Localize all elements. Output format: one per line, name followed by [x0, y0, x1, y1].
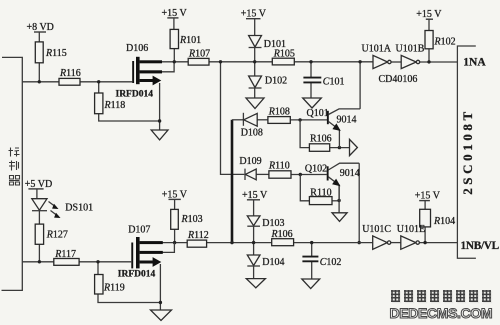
- svg-text:+15 V: +15 V: [416, 9, 442, 20]
- svg-text:D108: D108: [241, 128, 263, 139]
- resistor R107: [188, 58, 209, 65]
- svg-text:+15 V: +15 V: [241, 8, 267, 19]
- svg-text:1NA: 1NA: [463, 56, 486, 68]
- svg-text:+15 V: +15 V: [242, 190, 268, 201]
- power +15V rail bar (R101): [167, 17, 178, 19]
- wire Q102 base-emitter resistor branch: [300, 175, 309, 201]
- power +15V rail bar (R103): [169, 198, 181, 200]
- svg-text:U101E: U101E: [397, 224, 425, 235]
- svg-text:R119: R119: [103, 282, 125, 293]
- svg-text:R107: R107: [188, 48, 210, 59]
- transistor Q102: [327, 166, 329, 180]
- node Q101 emitter junction: [338, 146, 341, 149]
- wire R104 power lead: [424, 201, 426, 209]
- wire LED/R127 leads: [36, 189, 38, 198]
- node controller glyph 1 (kong): [9, 148, 20, 157]
- resistor R106 (Q101 base-emitter): [309, 144, 329, 152]
- node R102 junction: [427, 60, 430, 63]
- mosfet D107 drain stub: [140, 241, 163, 244]
- svg-text:R105: R105: [273, 49, 295, 60]
- wire D101 to signal to D102: [254, 47, 256, 76]
- ground below D107 source: [151, 310, 172, 321]
- node Q102 collector junction on lower signal: [358, 241, 361, 244]
- ground right of Q101 emitter: [350, 139, 358, 155]
- wire upper gate line (bus to R116 to D106 gate): [22, 81, 132, 83]
- svg-text:D102: D102: [265, 76, 287, 87]
- wire R108 to Q101 base: [290, 119, 327, 121]
- diode D102: [249, 76, 262, 88]
- wire C102 top lead: [311, 243, 313, 257]
- svg-text:D106: D106: [126, 43, 148, 54]
- wire R119 top lead: [97, 262, 99, 275]
- node R104 junction: [423, 241, 426, 244]
- resistor R103: [171, 209, 179, 229]
- node R127 junction: [38, 260, 41, 263]
- inverter U101B: [401, 55, 416, 68]
- mosfet D106 gate bar: [132, 61, 134, 83]
- svg-text:DS101: DS101: [65, 202, 93, 213]
- svg-text:IRFD014: IRFD014: [116, 89, 154, 99]
- svg-text:U101C: U101C: [362, 224, 391, 235]
- svg-text:R112: R112: [187, 230, 209, 241]
- LED DS101 emission arrows: [49, 202, 57, 208]
- ground below D102: [246, 98, 264, 109]
- svg-text:Q102: Q102: [305, 164, 327, 175]
- wire D106 middle stub L-connect: [161, 62, 174, 72]
- wire R103 power lead: [174, 200, 176, 210]
- diode D109: [244, 169, 246, 180]
- wire D109 branch from upper signal: [221, 62, 245, 175]
- ground below D104: [246, 279, 265, 288]
- svg-text:D107: D107: [128, 224, 150, 235]
- wire D102 to ground: [254, 88, 256, 98]
- svg-text:R106: R106: [310, 133, 332, 144]
- power +5VD rail bar (LED): [28, 188, 43, 190]
- resistor R108: [268, 117, 290, 124]
- ground below D106 source: [151, 130, 168, 140]
- wire D108 to R108: [257, 119, 268, 121]
- ground below C102: [302, 279, 320, 289]
- resistor R101: [170, 29, 178, 48]
- svg-text:D109: D109: [239, 156, 261, 167]
- node source rail junction: [158, 119, 161, 122]
- resistor R104: [420, 209, 431, 227]
- mosfet D106 channel bar: [136, 57, 140, 84]
- resistor R105: [272, 58, 294, 65]
- watermark line 1 (zhimeng CMS chinese): [392, 291, 492, 303]
- wire Q101 base-emitter resistor branch: [300, 120, 309, 148]
- node R118 junction: [97, 80, 100, 83]
- ground below Q102 emitter: [332, 213, 347, 222]
- svg-text:D103: D103: [262, 218, 284, 229]
- node D109 branch junction: [219, 60, 222, 63]
- wire lower gate line (bus to R117 to D107 gate): [22, 261, 131, 263]
- wire D103 to signal to D104: [253, 226, 255, 255]
- wire right bus of 2SC0108T: [457, 46, 476, 258]
- node lower drain junction: [173, 241, 176, 244]
- svg-text:R117: R117: [54, 249, 76, 260]
- node Q102 base junction: [299, 173, 302, 176]
- node controller glyph 2 (zhi): [9, 161, 19, 171]
- svg-text:R106: R106: [271, 229, 293, 240]
- wire upper signal line (drain to right bus): [161, 61, 373, 63]
- resistor R110 (D109 series): [269, 171, 291, 178]
- wire lower signal line: [161, 242, 373, 244]
- wire Q102 emitter to ground: [338, 185, 340, 213]
- svg-text:D104: D104: [262, 257, 284, 268]
- mosfet D106 drain stub: [140, 60, 162, 63]
- wire Q102 collector to lower signal: [358, 163, 360, 242]
- wire +15V lead to D101: [254, 19, 256, 36]
- wire R101 power lead: [173, 18, 175, 29]
- wire R103 bottom lead: [174, 229, 176, 242]
- wire D107 middle stub L-connect: [161, 243, 174, 253]
- svg-text:+15 V: +15 V: [415, 190, 441, 201]
- resistor R116: [59, 78, 80, 85]
- svg-text:U101B: U101B: [396, 43, 425, 54]
- node D103/D104 clamp junction: [252, 241, 255, 244]
- mosfet D107 source arrow: [140, 261, 154, 264]
- power +15V rail bar (D101): [246, 18, 261, 20]
- resistor R110 (Q102 base-emitter): [309, 197, 332, 205]
- svg-text:R127: R127: [46, 230, 68, 241]
- svg-text:R103: R103: [181, 214, 203, 225]
- wire R119 bottom to source rail: [98, 294, 160, 303]
- wire R118 bottom to source rail: [99, 114, 160, 121]
- svg-text:2SC0108T: 2SC0108T: [460, 108, 475, 195]
- resistor R127: [35, 224, 43, 244]
- wire left controller bus: [2, 57, 23, 290]
- wire D106 source down to rail and ground: [159, 83, 161, 130]
- mosfet D106 source arrow: [140, 79, 154, 82]
- svg-text:R116: R116: [59, 68, 81, 79]
- power +8VD rail bar: [34, 31, 46, 33]
- mosfet D107 channel bar: [136, 237, 140, 268]
- svg-text:9014: 9014: [337, 115, 357, 126]
- wire C102 bottom lead to ground: [311, 262, 313, 280]
- svg-text:CD40106: CD40106: [379, 74, 418, 85]
- wire Q101 collector to upper signal: [359, 62, 361, 109]
- resistor R119: [95, 275, 103, 295]
- node Q101 collector junction on signal: [358, 60, 361, 63]
- svg-text:1NB/VL: 1NB/VL: [461, 240, 500, 252]
- diode D108: [242, 113, 244, 126]
- svg-text:IRFD014: IRFD014: [118, 270, 156, 280]
- svg-text:+15 V: +15 V: [162, 189, 188, 200]
- wire D104 to ground: [253, 266, 255, 279]
- svg-text:R115: R115: [45, 48, 67, 59]
- wire D109 to R110: [256, 173, 269, 175]
- resistor R106 (lower series): [272, 239, 294, 246]
- wire C101 bottom lead to ground: [310, 83, 312, 98]
- svg-text:+8 VD: +8 VD: [27, 22, 54, 33]
- node R119 junction: [96, 260, 99, 263]
- resistor R118: [95, 93, 103, 114]
- transistor Q101: [327, 111, 329, 124]
- node R115/gate-line junction: [38, 80, 41, 83]
- node drain junction: [173, 60, 176, 63]
- diode D101: [249, 36, 262, 48]
- resistor R117: [54, 259, 79, 266]
- inverter U101E: [401, 236, 416, 249]
- svg-text:R108: R108: [268, 107, 290, 118]
- svg-text:U101A: U101A: [362, 43, 392, 54]
- power +15V rail bar (R102): [426, 18, 433, 20]
- inverter U101C: [373, 236, 388, 249]
- LED DS101: [32, 199, 47, 211]
- power +15V rail bar (D103): [247, 199, 260, 201]
- diode D103: [247, 216, 260, 226]
- wire R101 bottom lead to drain node: [173, 49, 175, 62]
- resistor R115: [35, 42, 43, 63]
- wire R106 to emitter node to ground arrow: [330, 147, 350, 149]
- node Q102 emitter junction: [337, 199, 340, 202]
- wire R110 to emitter node: [332, 200, 339, 202]
- mosfet D107 gate bar: [131, 243, 133, 269]
- power +15V rail bar (R104): [419, 200, 430, 202]
- node Q101 base junction: [298, 118, 301, 121]
- svg-text:R102: R102: [434, 36, 456, 47]
- node D101/D102 clamp junction: [253, 60, 256, 63]
- wire R115 lead: [38, 32, 40, 42]
- svg-text:R110: R110: [310, 188, 331, 199]
- wire R104 bottom lead: [424, 227, 426, 243]
- svg-text:C102: C102: [320, 257, 342, 268]
- svg-text:R101: R101: [179, 35, 201, 46]
- node controller glyph 3 (qi): [9, 176, 20, 186]
- wire R110 to Q102 base: [291, 174, 327, 176]
- resistor R112: [187, 240, 206, 247]
- svg-text:Q101: Q101: [307, 108, 329, 119]
- ground below C101: [303, 98, 322, 108]
- inverter U101A: [373, 55, 388, 68]
- svg-text:DEDECMS.COM: DEDECMS.COM: [390, 305, 493, 321]
- svg-text:R118: R118: [104, 100, 126, 111]
- wire +15V lead to D103: [253, 200, 255, 216]
- svg-text:9014: 9014: [340, 168, 360, 179]
- wire cross-couple bold line D108 to lower signal: [231, 120, 234, 243]
- svg-text:+5 VD: +5 VD: [25, 179, 52, 190]
- wire R102 power lead: [428, 20, 430, 31]
- wire C101 top lead: [310, 62, 312, 77]
- mosfet D107 middle stub: [140, 251, 163, 254]
- svg-text:R104: R104: [433, 216, 455, 227]
- node C101 junction: [309, 60, 312, 63]
- diode D104: [247, 255, 260, 266]
- wire R102 bottom lead: [428, 49, 430, 62]
- node cross-couple joins lower signal: [230, 241, 233, 244]
- wire D107 source down to rail and ground: [159, 264, 161, 310]
- capacitor C101: [303, 77, 321, 79]
- capacitor C102: [302, 256, 318, 258]
- wire R118 top lead: [98, 82, 100, 93]
- mosfet D106 middle stub: [140, 70, 162, 73]
- resistor R102: [425, 31, 433, 49]
- svg-text:R110: R110: [268, 160, 290, 171]
- node C102 junction: [310, 241, 313, 244]
- svg-text:+15 V: +15 V: [162, 8, 188, 19]
- node lower source rail junction: [159, 301, 162, 304]
- svg-text:C101: C101: [323, 76, 345, 87]
